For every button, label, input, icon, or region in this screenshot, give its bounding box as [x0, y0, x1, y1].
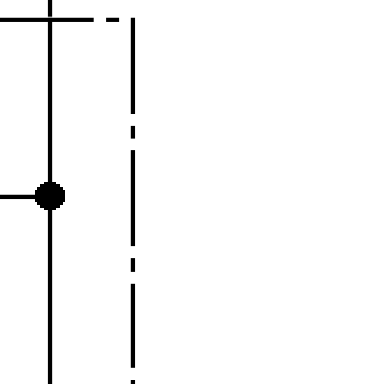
junction dot (node)	[35, 182, 65, 210]
dash-dot boundary top edge: dot dash	[106, 18, 119, 22]
wire (main vertical net, crosses boundary, runs to bottom)	[48, 18, 52, 384]
dash-dot boundary right edge: long dash 1	[131, 18, 135, 114]
dash-dot boundary right edge: long dash 2	[131, 150, 135, 246]
wire (vertical stub above dashed boundary)	[48, 0, 52, 17]
dash-dot boundary right edge: dot 3 (clipped at bottom)	[131, 380, 135, 384]
dash-dot boundary right edge: dot 1	[131, 126, 135, 139]
dash-dot boundary right edge: dot 2	[131, 258, 135, 272]
dash-dot boundary top edge: long dash	[0, 18, 94, 22]
dash-dot boundary right edge: long dash 3	[131, 284, 135, 368]
wire (horizontal branch into junction)	[0, 195, 40, 199]
